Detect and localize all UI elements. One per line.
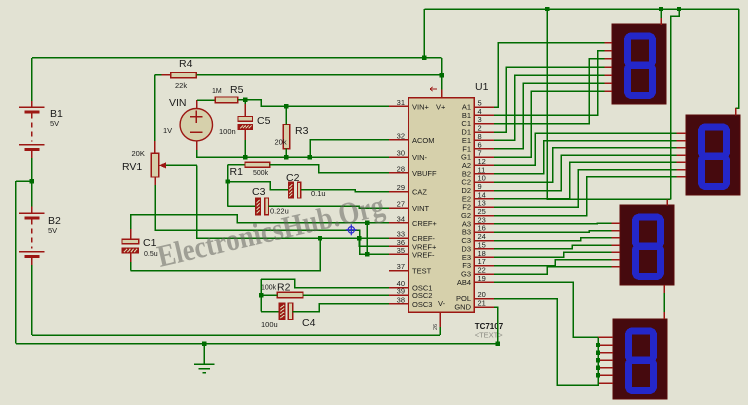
wire RV1 wiper to pin 33 net <box>197 165 359 238</box>
wire branch to C2 left <box>228 182 289 190</box>
wire CREF- to pin 33 <box>359 237 389 239</box>
capacitor C4 <box>261 311 279 313</box>
wire anode digit3 from rail <box>547 9 670 199</box>
resistor R4 <box>155 74 162 76</box>
wire D3 to digit3 <box>494 245 612 249</box>
wire G3 to digit3 <box>494 267 612 274</box>
wire G2 to digit2 <box>494 177 677 216</box>
svg-text:CREF+: CREF+ <box>412 219 437 228</box>
wire F2 to digit2 <box>494 170 677 208</box>
wire A3 to digit3 <box>494 222 612 225</box>
display D1 segment pins <box>605 42 613 44</box>
wire F1 to digit1 <box>494 83 605 149</box>
wire ground rail <box>16 343 498 345</box>
resistor R1 <box>228 164 245 166</box>
wire R2 right to pin 39 OSC2 <box>303 294 389 296</box>
display D2 segment pins <box>677 132 687 134</box>
svg-text:VIN: VIN <box>169 97 187 109</box>
svg-text:27: 27 <box>397 200 405 209</box>
svg-text:VIN+: VIN+ <box>412 102 430 111</box>
svg-text:C5: C5 <box>257 115 271 127</box>
svg-text:C2: C2 <box>286 172 300 184</box>
7-segment display D3 digit3 <box>620 205 674 285</box>
potentiometer RV1 <box>151 153 159 177</box>
wire AB4 to digit4 bus <box>494 282 598 337</box>
svg-text:34: 34 <box>397 214 405 223</box>
wire F3 to digit3 <box>494 260 612 266</box>
svg-text:R4: R4 <box>179 58 193 70</box>
wire A2 to digit2 <box>494 133 677 165</box>
wire C3 to digit3 <box>494 238 612 241</box>
svg-text:VINT: VINT <box>412 204 430 213</box>
wire C5 bottom to VIN- net <box>244 129 246 140</box>
digit4 bus <box>597 337 599 383</box>
wire R5 right to pin 31 VIN+ <box>238 100 389 107</box>
svg-text:30: 30 <box>397 149 405 158</box>
svg-text:C4: C4 <box>302 317 316 329</box>
resistor R3 <box>283 124 290 148</box>
wire D2 to digit2 <box>494 155 677 190</box>
wire B1 to digit1 <box>494 51 605 116</box>
svg-text:R2: R2 <box>277 282 291 294</box>
svg-text:R1: R1 <box>230 166 244 178</box>
wire C1 top to pin 34 CREF+ <box>130 229 132 239</box>
wire D1 to digit1 <box>494 67 605 132</box>
svg-text:VBUFF: VBUFF <box>412 169 437 178</box>
wire C2 right to pin 29 CAZ <box>301 190 389 192</box>
U1 left pin stubs and numbers <box>389 105 409 107</box>
wire mid junction to left rail <box>16 180 32 182</box>
wire ACOM pin 32 to VIN- net <box>310 140 389 157</box>
svg-text:V+: V+ <box>436 102 446 111</box>
svg-text:GND: GND <box>454 303 471 312</box>
wire RV1 bottom to pin 35 VREF- <box>154 177 156 185</box>
svg-text:CAZ: CAZ <box>412 188 427 197</box>
7-segment display D1 digit1 <box>612 24 666 104</box>
wire R3 bottom <box>285 149 287 158</box>
svg-text:100u: 100u <box>261 320 278 329</box>
svg-text:R5: R5 <box>230 84 244 96</box>
wire R3 top <box>285 106 287 124</box>
wire C1 bottom to net 33 <box>131 238 320 270</box>
wire anode digit2 <box>736 9 740 108</box>
svg-text:AB4: AB4 <box>457 278 471 287</box>
svg-text:<TEXT>: <TEXT> <box>475 331 504 340</box>
wire E2 to digit2 <box>494 162 677 199</box>
svg-text:100k: 100k <box>261 285 277 292</box>
wire B3 to digit3 <box>494 231 612 233</box>
svg-text:37: 37 <box>397 262 405 271</box>
capacitor C3 <box>256 198 261 215</box>
svg-text:R3: R3 <box>295 125 309 137</box>
wire anode digit4 from digit3 <box>663 285 665 293</box>
wire C3 left <box>228 205 256 207</box>
wire V+ feed to U1 <box>441 58 443 75</box>
svg-text:21: 21 <box>478 299 486 308</box>
display D4 segment pins <box>598 336 613 338</box>
wire C3 right to pin 27 VINT <box>269 206 390 208</box>
wire VIN top to R5 <box>196 100 198 108</box>
svg-text:TEST: TEST <box>412 267 432 276</box>
wire E1 to digit1 <box>494 75 605 140</box>
svg-text:38: 38 <box>397 295 405 304</box>
wire VIN bottom / VIN- line to pin 30 <box>196 141 198 150</box>
wire anode branch <box>671 9 680 199</box>
ground symbol <box>203 344 205 364</box>
svg-text:5V: 5V <box>48 226 57 235</box>
wire +5V top rail to displays <box>424 8 739 10</box>
svg-text:V-: V- <box>438 299 446 308</box>
svg-text:35: 35 <box>397 246 405 255</box>
svg-text:31: 31 <box>397 98 405 107</box>
wire C1 bottom stub <box>130 253 132 262</box>
wire C1 to digit1 <box>494 59 605 124</box>
wire A1 to digit1 <box>494 43 605 108</box>
wire POL to digit4 <box>494 299 598 385</box>
svg-text:28: 28 <box>397 164 405 173</box>
battery B1 <box>31 58 33 101</box>
svg-text:26: 26 <box>433 324 439 330</box>
svg-text:OSC3: OSC3 <box>412 300 432 309</box>
svg-text:20k: 20k <box>275 138 287 147</box>
wire G1 to digit1 <box>494 91 605 157</box>
wire E3 to digit3 <box>494 252 612 257</box>
svg-text:U1: U1 <box>475 81 489 93</box>
svg-text:RV1: RV1 <box>122 161 142 173</box>
wire R1 left vertical net <box>227 165 229 207</box>
svg-text:1M: 1M <box>212 88 222 95</box>
wire V- rail <box>32 334 440 336</box>
svg-text:29: 29 <box>397 183 405 192</box>
battery B2 <box>31 181 33 206</box>
wire to pin 40 OSC1 <box>261 279 389 287</box>
svg-text:C3: C3 <box>252 186 266 198</box>
wire branch to pin 36 VREF+ <box>359 238 389 246</box>
svg-text:ACOM: ACOM <box>412 136 435 145</box>
7-segment display D4 digit4 <box>613 319 667 399</box>
svg-text:20K: 20K <box>132 149 145 158</box>
wire anode digit1 <box>660 9 662 18</box>
wire R2 left junction <box>261 294 277 296</box>
svg-text:32: 32 <box>397 131 405 140</box>
wire GND to ground rail <box>494 307 498 344</box>
resistor R5 <box>215 97 238 103</box>
svg-text:19: 19 <box>478 274 486 283</box>
U1 right pin stubs and numbers <box>474 106 494 108</box>
svg-text:VIN-: VIN- <box>412 153 428 162</box>
wire R1 right to pin 28 VBUFF <box>270 165 389 173</box>
svg-text:22k: 22k <box>175 81 187 90</box>
svg-text:100n: 100n <box>219 127 236 136</box>
wire B2- to V- rail <box>31 265 33 335</box>
wire battery positive rail y58 <box>32 57 442 59</box>
capacitor C1 <box>122 239 139 244</box>
wire C2 to digit2 <box>494 148 677 182</box>
wire B1- to mid junction <box>31 158 33 181</box>
display D3 segment pins <box>612 222 621 224</box>
svg-text:VREF-: VREF- <box>412 250 435 259</box>
resistor R2 <box>277 292 303 297</box>
wire R4 left to RV1 top <box>154 75 156 141</box>
pin V- stub of U1 <box>439 327 441 335</box>
svg-text:1V: 1V <box>163 126 172 135</box>
capacitor C2 <box>288 182 293 198</box>
wire CREF+ to VREF- tie <box>366 223 368 255</box>
wiper arrow of RV1 <box>163 164 197 166</box>
pin V+ stub of U1 <box>441 89 443 98</box>
junction dots on top rail <box>545 7 549 11</box>
source VIN <box>180 109 212 141</box>
7-segment display D2 digit2 <box>686 115 740 195</box>
wire C4 right to pin 38 OSC3 <box>293 304 389 312</box>
svg-text:500k: 500k <box>253 170 269 177</box>
svg-text:5V: 5V <box>50 119 59 128</box>
origin marker <box>346 224 357 235</box>
op-amp U1 TC7107 body <box>409 98 475 312</box>
capacitor C5 <box>244 100 246 104</box>
wire B2 to digit2 <box>494 141 677 174</box>
